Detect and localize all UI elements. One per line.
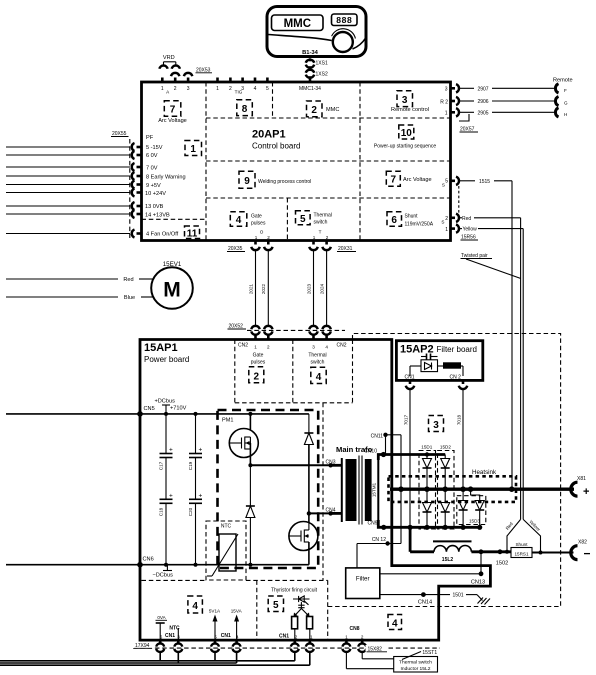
- svg-text:−: −: [584, 547, 591, 561]
- svg-text:S: S: [441, 220, 444, 225]
- svg-text:CN 12: CN 12: [372, 537, 386, 543]
- svg-text:0VA: 0VA: [157, 615, 166, 620]
- svg-text:1515: 1515: [479, 179, 490, 185]
- svg-text:CN1: CN1: [165, 633, 175, 639]
- svg-text:+710V: +710V: [170, 406, 187, 412]
- svg-text:CN2: CN2: [238, 343, 248, 349]
- svg-text:switch: switch: [311, 360, 325, 366]
- svg-text:F: F: [564, 88, 567, 93]
- svg-text:119mV/250A: 119mV/250A: [405, 222, 434, 228]
- svg-text:PF: PF: [146, 135, 154, 141]
- svg-text:−DCbus: −DCbus: [153, 573, 174, 579]
- svg-text:CN6: CN6: [143, 557, 154, 563]
- svg-text:15AP2: 15AP2: [400, 344, 434, 356]
- svg-text:4: 4: [236, 215, 242, 226]
- svg-text:14 +13VB: 14 +13VB: [145, 212, 170, 218]
- svg-text:5: 5: [214, 634, 217, 639]
- svg-text:+: +: [199, 447, 203, 454]
- svg-text:Control board: Control board: [252, 142, 300, 151]
- svg-text:1: 1: [310, 634, 313, 639]
- svg-text:C18: C18: [159, 507, 164, 516]
- svg-text:B1-34: B1-34: [302, 50, 319, 56]
- svg-text:Arc Voltage: Arc Voltage: [403, 177, 432, 183]
- svg-text:Shunt: Shunt: [405, 214, 419, 220]
- svg-text:CN1: CN1: [405, 375, 415, 381]
- svg-text:1501: 1501: [452, 593, 463, 599]
- svg-text:pulses: pulses: [251, 360, 266, 366]
- svg-text:15D2: 15D2: [440, 445, 451, 450]
- svg-text:9 +5V: 9 +5V: [146, 183, 161, 189]
- svg-text:11: 11: [187, 228, 198, 239]
- svg-text:2: 2: [267, 345, 270, 350]
- svg-text:CN11: CN11: [371, 433, 384, 439]
- svg-text:4 Fan On/Off: 4 Fan On/Off: [146, 232, 179, 238]
- svg-text:Thyristor firing circuit: Thyristor firing circuit: [271, 588, 318, 594]
- svg-text:H: H: [564, 112, 567, 117]
- svg-text:Inductor 15L2: Inductor 15L2: [401, 666, 431, 672]
- svg-text:Thermal: Thermal: [308, 353, 326, 359]
- svg-text:3: 3: [433, 420, 439, 431]
- svg-text:4: 4: [192, 601, 198, 612]
- svg-text:6 0V: 6 0V: [146, 153, 158, 159]
- svg-text:1: 1: [445, 227, 448, 233]
- svg-text:Yellow: Yellow: [463, 227, 478, 233]
- svg-text:Power-up starting sequence: Power-up starting sequence: [374, 144, 436, 150]
- svg-text:T: T: [319, 230, 322, 235]
- svg-text:3: 3: [177, 634, 180, 639]
- svg-text:2: 2: [445, 216, 448, 222]
- svg-text:9: 9: [244, 176, 250, 187]
- svg-text:CN1: CN1: [279, 633, 289, 639]
- svg-text:CN13: CN13: [471, 580, 485, 586]
- svg-text:Remote control: Remote control: [391, 107, 429, 113]
- svg-text:Blue: Blue: [124, 295, 135, 301]
- svg-text:TIG: TIG: [235, 90, 243, 95]
- svg-text:4: 4: [316, 372, 322, 383]
- svg-text:5: 5: [300, 214, 306, 225]
- svg-text:2: 2: [326, 235, 329, 240]
- svg-text:888: 888: [336, 15, 352, 25]
- svg-text:5V1A: 5V1A: [209, 609, 221, 614]
- svg-text:1: 1: [254, 345, 257, 350]
- svg-text:15D3: 15D3: [469, 518, 480, 523]
- svg-text:CN8: CN8: [349, 626, 359, 632]
- svg-text:2: 2: [311, 105, 317, 116]
- svg-text:Red: Red: [462, 216, 471, 222]
- svg-text:1XS1: 1XS1: [316, 60, 328, 66]
- svg-text:1: 1: [313, 235, 316, 240]
- svg-text:5: 5: [266, 86, 269, 92]
- svg-text:C19: C19: [188, 461, 193, 470]
- svg-text:Filter: Filter: [356, 576, 370, 583]
- svg-text:CN2: CN2: [337, 343, 347, 349]
- svg-text:CN 2: CN 2: [450, 375, 462, 381]
- svg-text:Remote: Remote: [553, 78, 573, 84]
- svg-text:MMC1-34: MMC1-34: [299, 86, 321, 92]
- svg-text:3: 3: [402, 95, 408, 106]
- svg-text:2: 2: [174, 86, 177, 92]
- svg-text:20AP1: 20AP1: [252, 129, 286, 141]
- svg-text:Gate: Gate: [253, 353, 264, 359]
- svg-text:15RS1: 15RS1: [514, 551, 528, 556]
- svg-text:2024: 2024: [319, 283, 324, 294]
- svg-text:2906: 2906: [477, 99, 488, 105]
- svg-text:2: 2: [361, 634, 364, 639]
- svg-text:PM1: PM1: [222, 418, 234, 424]
- svg-text:3: 3: [445, 87, 448, 93]
- svg-text:1: 1: [216, 86, 219, 92]
- svg-text:CN10: CN10: [364, 449, 377, 455]
- svg-text:6: 6: [391, 215, 397, 226]
- svg-text:10: 10: [401, 128, 413, 139]
- svg-text:1502: 1502: [496, 561, 508, 567]
- svg-text:Shunt: Shunt: [515, 542, 528, 547]
- svg-text:Red: Red: [123, 277, 133, 283]
- svg-text:15AP1: 15AP1: [144, 342, 178, 354]
- svg-text:O: O: [260, 230, 264, 235]
- svg-text:2022: 2022: [261, 283, 266, 294]
- svg-text:+: +: [169, 447, 173, 454]
- svg-text:1: 1: [445, 111, 448, 117]
- svg-text:7018: 7018: [456, 414, 461, 425]
- svg-text:Filter board: Filter board: [437, 345, 477, 354]
- svg-text:+: +: [169, 492, 173, 499]
- svg-text:7: 7: [391, 175, 397, 186]
- svg-text:7 0V: 7 0V: [146, 165, 158, 171]
- svg-text:2023: 2023: [306, 283, 311, 294]
- svg-text:8: 8: [242, 104, 248, 115]
- svg-text:CN5: CN5: [144, 406, 155, 412]
- svg-text:+: +: [199, 492, 203, 499]
- svg-text:7017: 7017: [403, 414, 408, 425]
- svg-text:2: 2: [267, 235, 270, 240]
- svg-text:NTC: NTC: [169, 626, 180, 632]
- svg-text:2905: 2905: [477, 110, 488, 116]
- svg-text:4: 4: [254, 86, 257, 92]
- svg-text:Welding process control: Welding process control: [258, 179, 311, 185]
- svg-text:Thermal: Thermal: [314, 213, 332, 219]
- svg-text:5 -15V: 5 -15V: [146, 145, 163, 151]
- svg-text:switch: switch: [314, 220, 328, 226]
- svg-text:NTC: NTC: [221, 524, 232, 530]
- svg-text:8 Early Warning: 8 Early Warning: [146, 174, 186, 180]
- svg-text:2: 2: [229, 86, 232, 92]
- svg-text:4: 4: [325, 345, 328, 350]
- svg-text:CN9: CN9: [367, 521, 377, 527]
- svg-text:15L2: 15L2: [442, 557, 454, 563]
- svg-text:3: 3: [187, 86, 190, 92]
- svg-text:13 0VB: 13 0VB: [145, 204, 164, 210]
- svg-text:5: 5: [445, 179, 448, 185]
- svg-text:X82: X82: [578, 540, 587, 546]
- svg-text:CN1: CN1: [221, 633, 231, 639]
- svg-text:15D1: 15D1: [421, 445, 432, 450]
- svg-text:VRD: VRD: [163, 55, 175, 61]
- svg-text:2907: 2907: [477, 86, 488, 92]
- svg-text:R 2: R 2: [440, 99, 448, 105]
- svg-text:X81: X81: [577, 476, 586, 482]
- svg-text:6: 6: [160, 634, 163, 639]
- svg-text:Heatsink: Heatsink: [472, 469, 497, 476]
- svg-text:C17: C17: [159, 461, 164, 470]
- svg-text:C20: C20: [188, 507, 193, 516]
- svg-text:+: +: [583, 486, 589, 498]
- svg-text:pulses: pulses: [251, 221, 266, 227]
- svg-text:1: 1: [345, 634, 348, 639]
- svg-text:1: 1: [190, 144, 196, 155]
- svg-text:4: 4: [236, 634, 239, 639]
- svg-text:5: 5: [273, 600, 279, 611]
- svg-text:Power board: Power board: [144, 355, 189, 364]
- svg-text:MMC: MMC: [284, 18, 311, 30]
- svg-text:15TM1: 15TM1: [371, 482, 376, 497]
- svg-text:CN14: CN14: [418, 600, 432, 606]
- svg-text:15ST1: 15ST1: [422, 650, 437, 656]
- svg-text:1: 1: [255, 235, 258, 240]
- svg-text:Gate: Gate: [251, 214, 262, 220]
- svg-text:G: G: [564, 101, 568, 106]
- svg-text:2021: 2021: [248, 283, 253, 294]
- svg-text:3: 3: [312, 345, 315, 350]
- svg-text:4: 4: [392, 618, 398, 629]
- svg-text:7: 7: [170, 105, 176, 116]
- svg-text:Arc Voltage: Arc Voltage: [158, 118, 187, 124]
- svg-text:S: S: [442, 183, 445, 188]
- svg-text:10 +24V: 10 +24V: [145, 191, 166, 197]
- svg-text:1: 1: [161, 86, 164, 92]
- svg-text:2: 2: [295, 634, 298, 639]
- svg-text:+DCbus: +DCbus: [155, 399, 176, 405]
- svg-text:1XS2: 1XS2: [316, 72, 328, 78]
- svg-text:M: M: [163, 279, 181, 302]
- svg-text:15VA: 15VA: [231, 609, 243, 614]
- svg-text:Thermal switch: Thermal switch: [399, 660, 432, 666]
- svg-text:2: 2: [254, 371, 260, 382]
- svg-text:MMC: MMC: [326, 107, 339, 113]
